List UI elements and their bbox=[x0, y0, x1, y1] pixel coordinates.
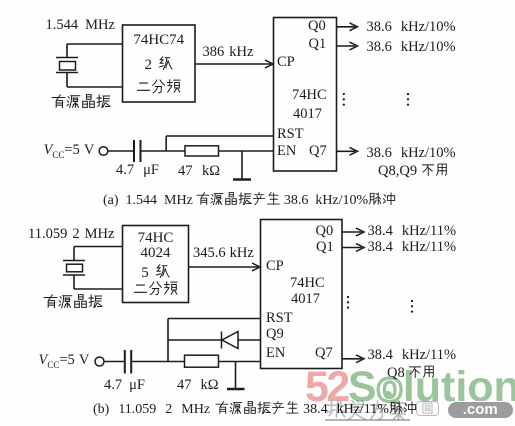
node Vcc terminal circle (a) bbox=[99, 147, 108, 156]
note Q8,Q9 不用 bbox=[378, 163, 449, 178]
wire R2 to U4 EN bbox=[219, 361, 261, 363]
pin label Q0 (U2) bbox=[308, 19, 326, 34]
pin label Q1 (U4) bbox=[316, 240, 334, 255]
label U1 二分频 bbox=[123, 79, 196, 96]
pin label Q7 (U4) bbox=[315, 346, 333, 361]
label U3 5级 bbox=[123, 264, 189, 281]
value label 4.7 uF (a) bbox=[116, 163, 159, 178]
output label Q7 38.6 kHz/10% bbox=[367, 146, 456, 161]
output label Q0 38.4 kHz/11% bbox=[368, 224, 457, 239]
IC U4 74HC4017 box bbox=[261, 220, 343, 369]
arrow Q0 output (b) bbox=[342, 228, 364, 236]
wire RST (a) bbox=[166, 135, 273, 137]
wire crystal bottom to U3 bbox=[74, 288, 123, 290]
node Vcc terminal circle (b) bbox=[95, 357, 104, 366]
output label Q7 38.4 kHz/11% bbox=[368, 348, 457, 363]
pin label Q1 (U2) bbox=[309, 37, 327, 52]
arrow Q7 output bbox=[337, 147, 358, 155]
value label 47 kOhm (a) bbox=[178, 164, 220, 179]
value label 345.6 kHz bbox=[193, 246, 254, 261]
glyph symbol definitions for CJK pseudo-glyphs bbox=[0, 0, 1, 1]
ground GND1 bbox=[233, 151, 251, 180]
label U3 74HC bbox=[123, 231, 189, 246]
arrow Q1 output (b) bbox=[342, 244, 364, 252]
label U3 二分频 bbox=[123, 281, 189, 298]
ground GND2 bbox=[227, 362, 245, 390]
value label 386 kHz bbox=[203, 45, 254, 60]
pin label CP (U2) bbox=[277, 55, 295, 70]
wire circle to C1 bbox=[108, 150, 133, 152]
power label Vcc=5 V (a) bbox=[44, 143, 95, 162]
wire RST (b) bbox=[168, 318, 261, 320]
wire 345.6kHz arrow U3 to U4 CP bbox=[189, 263, 261, 271]
wire C2 to R2 bbox=[132, 361, 185, 363]
caption (a) bbox=[103, 192, 396, 208]
pin label CP (U4) bbox=[266, 259, 284, 274]
output label Q0 38.6 kHz/10% bbox=[367, 20, 456, 35]
pin label EN (U2) bbox=[277, 144, 296, 159]
label U1 2级 bbox=[123, 56, 196, 73]
arrow Q1 output bbox=[337, 42, 358, 50]
arrow Q0 output bbox=[337, 23, 358, 31]
wire diode to node A bbox=[168, 339, 221, 341]
note Q8 不用 bbox=[387, 365, 436, 380]
wire crystal top to U3 bbox=[74, 246, 123, 248]
value label 1.544 MHz bbox=[46, 18, 115, 33]
wire crystal top to U1 bbox=[67, 43, 123, 45]
logo .com badge bbox=[447, 401, 515, 419]
IC U1 74HC74 box bbox=[123, 25, 196, 102]
pin label Q7 (U2) bbox=[309, 144, 327, 159]
wire C1 to R1 bbox=[141, 150, 185, 152]
wire 386kHz arrow U1 to U2 CP bbox=[195, 60, 273, 68]
pin label Q0 (U4) bbox=[316, 224, 334, 239]
label U2 4017 bbox=[293, 107, 322, 122]
watermark 网 in box bbox=[416, 401, 439, 416]
value label 4.7 uF (b) bbox=[104, 378, 145, 393]
crystal X1 bbox=[56, 44, 78, 87]
wire circle to C2 bbox=[104, 361, 124, 363]
pin label RST (U4) bbox=[266, 311, 293, 326]
value label 11.059 2 MHz bbox=[28, 227, 114, 242]
wire Q9 to diode bbox=[238, 339, 261, 341]
watermark 我爱方案网 bbox=[325, 400, 409, 425]
ellipsis dots (a) outer bbox=[407, 93, 409, 106]
power label Vcc=5 V (b) bbox=[39, 353, 90, 372]
pin label Q9 (U4) bbox=[266, 327, 284, 342]
logo o center dot bbox=[384, 391, 392, 399]
pin label EN (U4) bbox=[266, 346, 285, 361]
label X2 有源晶振 bbox=[43, 294, 103, 311]
diode D1 bbox=[222, 332, 239, 349]
IC U3 74HC4024 box bbox=[123, 226, 189, 303]
ellipsis dots (b) outer bbox=[411, 300, 413, 313]
capacitor C2 bbox=[125, 350, 131, 374]
label U4 4017 bbox=[291, 292, 320, 307]
wire crystal bottom to U1 bbox=[67, 86, 123, 88]
value label 47 kOhm (b) bbox=[177, 378, 219, 393]
label U1 74HC74 bbox=[123, 33, 196, 48]
label X1 有源晶振 bbox=[51, 94, 111, 111]
watermark underline bbox=[325, 419, 410, 421]
node A junction to RST bbox=[165, 136, 167, 151]
wire R1 to U2 EN bbox=[219, 150, 274, 152]
logo 52Solution bbox=[305, 366, 515, 409]
capacitor C1 bbox=[134, 140, 141, 162]
resistor R2 bbox=[185, 355, 219, 367]
arrow Q7 output (b) bbox=[342, 355, 364, 363]
output label Q1 38.6 kHz/10% bbox=[367, 40, 456, 55]
IC U2 74HC4017 box bbox=[274, 18, 337, 172]
label U4 74HC bbox=[290, 276, 325, 291]
label U3 4024 bbox=[123, 246, 189, 261]
caption (b) bbox=[93, 401, 417, 417]
crystal X2 bbox=[63, 247, 85, 290]
output label Q1 38.4 kHz/11% bbox=[368, 240, 457, 255]
ellipsis dots (a) inner bbox=[343, 93, 345, 106]
label U2 74HC bbox=[292, 88, 327, 103]
node A vertical (b) bbox=[167, 319, 169, 362]
resistor R1 bbox=[185, 146, 219, 156]
ellipsis dots (b) inner bbox=[347, 296, 349, 309]
pin label RST (U2) bbox=[277, 127, 304, 142]
